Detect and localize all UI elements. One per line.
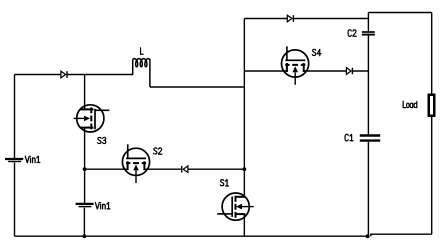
diode D1	[61, 71, 67, 78]
transistor S2	[122, 144, 149, 183]
transistor S1	[217, 193, 254, 220]
wire left rail bottom	[14, 163, 16, 237]
wire top rail to diode D3	[244, 18, 287, 20]
wire left rail top	[14, 75, 16, 159]
wire load loop top	[368, 12, 431, 14]
wire top rail to inductor	[67, 74, 133, 76]
wire C branch bottom	[367, 142, 369, 236]
wire S3 source down	[84, 128, 86, 203]
label S3	[98, 137, 102, 143]
wire battery to bottom rail	[83, 208, 85, 237]
wire mid rail to S4	[244, 70, 287, 72]
wire load loop bottom	[371, 234, 432, 236]
wire bottom rail	[15, 235, 369, 237]
node dot battery-bottom rail	[83, 234, 87, 238]
label S1	[220, 180, 224, 186]
label C1	[345, 134, 348, 141]
label C2	[348, 30, 351, 37]
inductor L	[133, 59, 150, 87]
load resistor	[429, 95, 435, 116]
wire C branch top	[367, 13, 369, 32]
battery Vin1 bottom	[76, 204, 94, 207]
transistor S3	[74, 105, 110, 132]
label L	[141, 48, 144, 54]
wire top rail diode to C branch	[293, 18, 368, 20]
wire load loop right upper	[431, 13, 433, 94]
diode D3	[287, 15, 293, 22]
wire top rail left segment	[15, 74, 61, 76]
label S4	[312, 49, 316, 55]
wire S4 to diode D4	[304, 70, 347, 72]
wire row junction to S2	[85, 168, 128, 170]
wire load loop right lower	[431, 117, 433, 234]
node dot C-branch bottom rail	[366, 234, 370, 238]
wire mid vertical rail	[243, 19, 245, 197]
wire C branch mid	[367, 36, 369, 135]
label Load	[403, 101, 406, 107]
transistor S4	[282, 46, 309, 85]
label S2	[153, 148, 157, 154]
node dot mid rail row	[242, 167, 246, 171]
wire S3 drain tap	[84, 75, 86, 110]
label Vin1 left	[25, 156, 29, 162]
node dot S3-S2 row	[83, 167, 87, 171]
wire S2 to diode D2	[144, 168, 181, 170]
capacitor C2	[362, 32, 375, 35]
wire diode D4 to C branch	[352, 70, 368, 72]
wire S1 source to bottom rail	[243, 214, 245, 236]
label Vin1 bottom	[95, 203, 99, 209]
diode D4	[346, 68, 352, 75]
battery Vin1 left	[5, 159, 23, 162]
wire diode D2 to mid junction	[188, 168, 244, 170]
wire inductor to mid rail	[150, 86, 244, 88]
capacitor C1	[360, 136, 380, 141]
diode D2 (points left)	[182, 166, 188, 173]
